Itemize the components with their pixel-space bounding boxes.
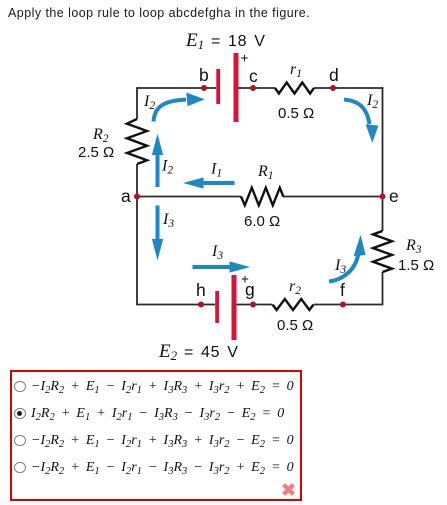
wire right side <box>382 87 384 305</box>
svg-text:I2: I2 <box>143 93 155 112</box>
option row 1 <box>12 380 300 400</box>
node e <box>380 194 386 200</box>
resistor R1 <box>241 188 283 206</box>
wire bottom between battery and r2 <box>236 304 272 306</box>
svg-text:c: c <box>249 66 258 86</box>
svg-text:= 45 V: = 45 V <box>184 344 239 361</box>
svg-text:E1: E1 <box>185 30 204 52</box>
svg-text:6.0 Ω: 6.0 Ω <box>244 213 280 230</box>
wire top-left segment b side <box>137 87 216 89</box>
wire middle right <box>283 196 383 198</box>
node h <box>198 302 204 308</box>
wire top between battery and r1 <box>238 87 275 89</box>
current arrow I3 curved right side up <box>329 235 366 282</box>
svg-text:e: e <box>389 186 399 206</box>
svg-text:r1: r1 <box>290 61 302 80</box>
wire bottom right segment <box>314 304 383 306</box>
node b <box>201 85 207 91</box>
option row 2 (selected) <box>12 407 300 427</box>
svg-text:I1: I1 <box>210 161 222 180</box>
battery E1 long plate <box>234 53 239 122</box>
answer options box <box>10 370 302 501</box>
svg-text:I2: I2 <box>161 158 173 177</box>
option row 4 <box>12 461 300 481</box>
current arrow I3 right (above E2) <box>193 261 251 272</box>
node c <box>250 85 256 91</box>
svg-text:I3: I3 <box>211 243 223 262</box>
svg-text:g: g <box>245 280 255 300</box>
svg-text:R3: R3 <box>405 237 422 256</box>
svg-text:I3: I3 <box>162 211 174 230</box>
svg-text:+: + <box>241 51 249 66</box>
resistor R2 <box>127 119 147 164</box>
current arrow I3 down (below a) <box>152 206 163 261</box>
battery E2 long plate <box>232 275 237 340</box>
node g <box>250 302 256 308</box>
wire top-right segment d side <box>314 87 383 89</box>
svg-text:r2: r2 <box>289 278 301 297</box>
svg-text:= 18 V: = 18 V <box>211 33 266 50</box>
current arrow I2 curved top-right <box>344 100 378 144</box>
svg-text:I2: I2 <box>366 92 378 111</box>
node d <box>330 85 336 91</box>
svg-text:b: b <box>199 65 209 85</box>
svg-text:0.5 Ω: 0.5 Ω <box>278 105 314 122</box>
option row 3 <box>12 434 300 454</box>
svg-text:h: h <box>196 280 206 300</box>
current arrow I2 up (left side) <box>152 134 163 188</box>
resistor R3 <box>373 231 392 272</box>
svg-text:R2: R2 <box>92 126 109 145</box>
resistor r2 <box>273 299 314 310</box>
node f <box>340 302 346 308</box>
battery E1 short plate <box>216 69 220 104</box>
svg-text:0.5 Ω: 0.5 Ω <box>277 317 313 334</box>
svg-text:2.5 Ω: 2.5 Ω <box>78 144 114 161</box>
svg-text:1.5 Ω: 1.5 Ω <box>398 257 434 274</box>
svg-text:R1: R1 <box>257 163 274 182</box>
current arrow I2 curved top-left <box>154 93 205 122</box>
wire bottom left segment <box>137 304 215 306</box>
node a <box>134 194 140 200</box>
svg-text:f: f <box>340 280 345 300</box>
current arrow I1 left (middle) <box>183 177 235 188</box>
svg-text:I3: I3 <box>334 257 346 276</box>
resistor r1 <box>275 83 314 94</box>
svg-text:a: a <box>121 186 131 206</box>
svg-text:E2: E2 <box>158 341 178 363</box>
incorrect X mark <box>282 483 295 496</box>
battery E2 short plate <box>215 291 219 323</box>
wire middle left <box>137 196 241 198</box>
wire left side <box>136 87 138 305</box>
svg-text:d: d <box>329 65 339 85</box>
